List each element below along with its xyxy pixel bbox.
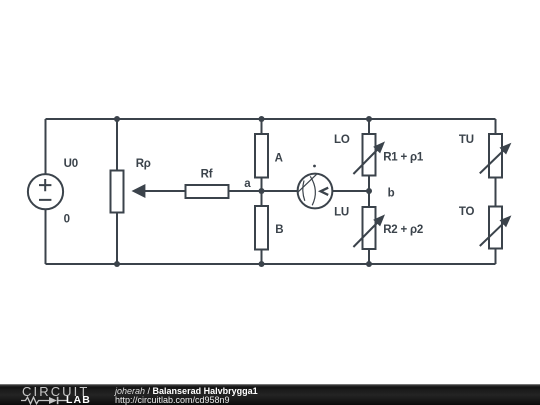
svg-text:Rρ: Rρ <box>136 158 151 170</box>
svg-text:A: A <box>275 153 283 165</box>
svg-text:0: 0 <box>64 213 70 225</box>
svg-text:U0: U0 <box>64 158 78 170</box>
svg-text:R2 + ρ2: R2 + ρ2 <box>383 224 423 236</box>
svg-text:LU: LU <box>334 206 349 218</box>
svg-text:TU: TU <box>459 134 474 146</box>
svg-text:a: a <box>244 178 251 190</box>
svg-text:Rf: Rf <box>201 169 213 181</box>
svg-text:TO: TO <box>459 206 475 218</box>
svg-text:b: b <box>388 187 395 199</box>
svg-text:LO: LO <box>334 134 350 146</box>
svg-text:B: B <box>275 224 283 236</box>
svg-text:R1 + ρ1: R1 + ρ1 <box>383 152 424 164</box>
